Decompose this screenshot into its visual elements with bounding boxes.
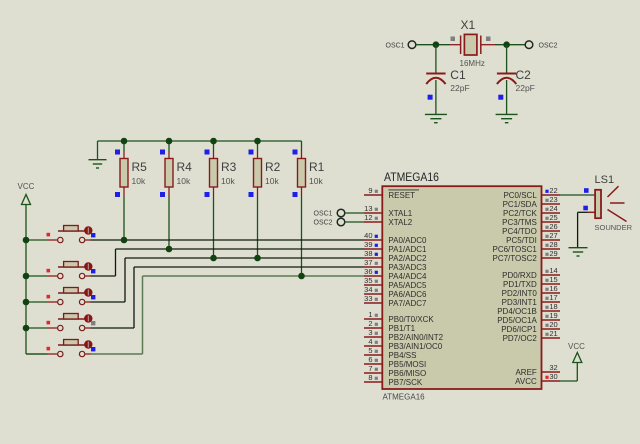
svg-text:PC0/SCL: PC0/SCL [503, 191, 537, 200]
svg-text:33: 33 [364, 294, 372, 303]
power VCC (left) [18, 182, 35, 205]
svg-text:R1: R1 [309, 160, 325, 174]
svg-text:22pF: 22pF [450, 83, 469, 93]
wire R5 bottom lead [123, 197, 125, 241]
svg-text:PD5/OC1A: PD5/OC1A [497, 316, 537, 325]
svg-text:22pF: 22pF [516, 83, 535, 93]
svg-text:LS1: LS1 [595, 174, 615, 186]
svg-text:PB0/T0/XCK: PB0/T0/XCK [388, 315, 434, 324]
ground (sounder) [569, 248, 588, 256]
push button 1 [47, 226, 96, 243]
pin 3 PB2/AIN0/INT2 [364, 328, 444, 342]
pin 2 PB1/T1 [364, 319, 416, 333]
svg-text:PD4/OC1B: PD4/OC1B [497, 307, 537, 316]
node VCC rail junction 1 [23, 237, 30, 244]
svg-text:PA3/ADC3: PA3/ADC3 [388, 263, 427, 272]
svg-text:8: 8 [368, 373, 372, 382]
wire sounder to ground [578, 212, 588, 247]
ground (resistor rail) [89, 160, 107, 168]
wire R3 bottom lead [213, 197, 215, 259]
svg-text:39: 39 [364, 240, 372, 249]
pin 22 PC0/SCL [503, 186, 560, 200]
svg-text:RESET: RESET [388, 191, 415, 200]
svg-text:PD3/INT1: PD3/INT1 [502, 298, 538, 307]
svg-text:PB6/MISO: PB6/MISO [388, 369, 426, 378]
svg-text:PC4/TDO: PC4/TDO [502, 227, 537, 236]
crystal X1 16MHz [450, 18, 495, 68]
resistor R5 10k [115, 141, 147, 197]
svg-text:17: 17 [549, 293, 557, 302]
svg-text:AVCC: AVCC [515, 377, 537, 386]
push button 5 [47, 340, 96, 357]
svg-text:35: 35 [364, 276, 372, 285]
svg-text:PA1/ADC1: PA1/ADC1 [388, 245, 427, 254]
pin 27 PC5/TDI [506, 231, 560, 245]
node VCC rail junction 4 [23, 325, 30, 332]
pin 25 PC3/TMS [502, 213, 560, 227]
svg-text:AREF: AREF [515, 368, 536, 377]
svg-text:OSC1: OSC1 [386, 43, 405, 50]
node crystal junction C1 [433, 41, 440, 48]
node OSC2 terminal (left) [314, 218, 345, 226]
svg-text:27: 27 [549, 231, 557, 240]
svg-text:ATMEGA16: ATMEGA16 [383, 393, 426, 402]
svg-text:PC1/SDA: PC1/SDA [503, 200, 538, 209]
node VCC rail junction 3 [23, 299, 30, 306]
svg-text:24: 24 [549, 204, 557, 213]
svg-text:XTAL2: XTAL2 [388, 218, 412, 227]
node R3 junction [210, 255, 217, 262]
svg-text:VCC: VCC [568, 342, 585, 351]
wire R1 bottom lead [301, 197, 303, 277]
svg-text:10k: 10k [221, 176, 235, 186]
svg-text:PC7/TOSC2: PC7/TOSC2 [492, 254, 537, 263]
svg-text:16MHz: 16MHz [460, 59, 485, 68]
pin 28 PC6/TOSC1 [492, 240, 560, 254]
pin 12 XTAL2 [364, 213, 413, 227]
svg-text:PB5/MOSI: PB5/MOSI [388, 360, 426, 369]
capacitor C1 22pF [426, 68, 469, 100]
svg-text:34: 34 [364, 285, 372, 294]
svg-text:C2: C2 [516, 68, 532, 82]
svg-text:12: 12 [364, 213, 372, 222]
wire VCC rail [26, 205, 48, 355]
svg-text:PD7/OC2: PD7/OC2 [503, 334, 538, 343]
wire OSC1 to crystal [416, 44, 450, 46]
svg-text:4: 4 [368, 337, 372, 346]
svg-text:5: 5 [368, 346, 372, 355]
pin 34 PA6/ADC6 [364, 285, 427, 299]
pin 24 PC2/TCK [503, 204, 560, 218]
wire VCC to button 5 [26, 353, 48, 355]
pin 33 PA7/ADC7 [364, 294, 427, 308]
svg-text:25: 25 [549, 213, 557, 222]
node R4 junction [166, 246, 173, 253]
IC U1 ATMEGA16 (MCU body) [382, 170, 541, 402]
wire VCC to button 2 [26, 275, 48, 277]
svg-text:PB2/AIN0/INT2: PB2/AIN0/INT2 [388, 333, 443, 342]
node rail junction R3 [210, 138, 217, 145]
power VCC (right) [568, 342, 585, 363]
svg-text:PC6/TOSC1: PC6/TOSC1 [492, 245, 537, 254]
svg-text:PA2/ADC2: PA2/ADC2 [388, 254, 427, 263]
wire C1 top lead [435, 45, 437, 73]
node R2 junction [254, 255, 261, 262]
svg-text:37: 37 [364, 258, 372, 267]
wire PC0 to sounder [560, 194, 595, 196]
pin 4 PB3/AIN1/OC0 [364, 337, 443, 351]
svg-text:PD6/ICP1: PD6/ICP1 [501, 325, 537, 334]
pin 30 AVCC [515, 372, 560, 386]
wire button 5 to PA4 [91, 276, 365, 354]
svg-text:10k: 10k [265, 176, 279, 186]
push button 2 [47, 262, 96, 279]
node OSC1 terminal (left) [314, 209, 345, 217]
wire R2 bottom lead [257, 197, 259, 259]
svg-text:PB4/SS: PB4/SS [388, 351, 416, 360]
pin 18 PD4/OC1B [497, 302, 560, 316]
svg-text:15: 15 [549, 275, 557, 284]
svg-text:3: 3 [368, 328, 372, 337]
svg-text:VCC: VCC [18, 182, 35, 191]
push button 4 [47, 314, 96, 331]
wire button 2 to PA1 [91, 249, 365, 276]
svg-text:PA6/ADC6: PA6/ADC6 [388, 290, 427, 299]
ground (C2) [496, 114, 518, 122]
wire C2 top lead [506, 45, 508, 73]
pin 32 AREF [515, 363, 560, 377]
resistor R3 10k [205, 141, 237, 197]
svg-text:C1: C1 [450, 68, 466, 82]
node R5 junction [121, 237, 128, 244]
svg-text:26: 26 [549, 222, 557, 231]
pin 23 PC1/SDA [503, 195, 560, 209]
pin 6 PB5/MOSI [364, 355, 426, 369]
resistor R4 10k [160, 141, 192, 197]
pin 36 PA4/ADC4 [364, 267, 427, 281]
svg-text:R2: R2 [265, 160, 281, 174]
svg-text:PC5/TDI: PC5/TDI [506, 236, 537, 245]
svg-text:13: 13 [364, 204, 372, 213]
pin 16 PD2/INT0 [502, 284, 560, 298]
wire R4 bottom lead [168, 197, 170, 250]
pin 1 PB0/T0/XCK [364, 310, 434, 324]
svg-text:16: 16 [549, 284, 557, 293]
svg-text:PB7/SCK: PB7/SCK [388, 378, 422, 387]
svg-text:PD0/RXD: PD0/RXD [502, 271, 537, 280]
resistor R1 10k [293, 141, 325, 197]
svg-text:6: 6 [368, 355, 372, 364]
svg-text:PD1/TXD: PD1/TXD [503, 280, 537, 289]
svg-text:20: 20 [549, 320, 557, 329]
svg-text:R3: R3 [221, 160, 237, 174]
resistor R2 10k [249, 141, 281, 197]
svg-text:18: 18 [549, 302, 557, 311]
svg-text:PB3/AIN1/OC0: PB3/AIN1/OC0 [388, 342, 442, 351]
pin 29 PC7/TOSC2 [492, 249, 560, 263]
wire VCC to button 4 [26, 327, 48, 329]
wire OSC2 to XTAL [345, 221, 364, 223]
svg-text:X1: X1 [461, 18, 476, 32]
svg-text:PA7/ADC7: PA7/ADC7 [388, 299, 427, 308]
pin 37 PA3/ADC3 [364, 258, 427, 272]
pin 13 XTAL1 [364, 204, 413, 218]
ground (C1) [425, 114, 447, 122]
wire C2 bottom lead [506, 80, 508, 114]
svg-text:22: 22 [549, 186, 557, 195]
pin 19 PD5/OC1A [497, 311, 560, 325]
svg-text:29: 29 [549, 249, 557, 258]
svg-text:10k: 10k [132, 176, 146, 186]
wire button 1 to PA0 [91, 239, 365, 241]
svg-text:PA0/ADC0: PA0/ADC0 [388, 236, 427, 245]
svg-text:PC3/TMS: PC3/TMS [502, 218, 537, 227]
svg-text:PA4/ADC4: PA4/ADC4 [388, 272, 427, 281]
pin 35 PA5/ADC5 [364, 276, 427, 290]
push button 3 [47, 288, 96, 305]
svg-text:32: 32 [549, 363, 557, 372]
wire VCC to button 1 [26, 239, 48, 241]
pin 20 PD6/ICP1 [501, 320, 560, 334]
wire C1 bottom lead [435, 80, 437, 114]
pin 40 PA0/ADC0 [364, 231, 427, 245]
node crystal junction C2 [503, 41, 510, 48]
capacitor C2 22pF [497, 68, 535, 100]
svg-text:21: 21 [549, 329, 557, 338]
wire crystal to OSC2 [495, 44, 525, 46]
svg-text:OSC1: OSC1 [314, 211, 333, 218]
node VCC rail junction 2 [23, 273, 30, 280]
svg-text:10k: 10k [309, 176, 323, 186]
svg-text:9: 9 [368, 186, 372, 195]
svg-text:OSC2: OSC2 [539, 43, 558, 50]
svg-text:PA5/ADC5: PA5/ADC5 [388, 281, 427, 290]
wire OSC1 to XTAL [345, 212, 364, 214]
pin 38 PA2/ADC2 [364, 249, 427, 263]
pin 17 PD3/INT1 [502, 293, 560, 307]
svg-text:PD2/INT0: PD2/INT0 [502, 289, 538, 298]
svg-text:28: 28 [549, 240, 557, 249]
pin 5 PB4/SS [364, 346, 416, 360]
svg-text:XTAL1: XTAL1 [388, 209, 412, 218]
svg-text:1: 1 [368, 310, 372, 319]
pin 14 PD0/RXD [502, 266, 560, 280]
svg-text:30: 30 [549, 372, 557, 381]
svg-text:14: 14 [549, 266, 557, 275]
pin 9 RESET [364, 186, 419, 200]
svg-text:2: 2 [368, 319, 372, 328]
speaker LS1 SOUNDER [583, 174, 632, 232]
node rail junction R4 [166, 138, 173, 145]
wire button 3 to PA2 [91, 258, 365, 302]
pin 26 PC4/TDO [502, 222, 560, 236]
svg-text:40: 40 [364, 231, 372, 240]
node OSC1 terminal (top) [386, 41, 416, 50]
pin 39 PA1/ADC1 [364, 240, 427, 254]
node R1 junction [298, 273, 305, 280]
pin 7 PB6/MISO [364, 364, 426, 378]
node OSC2 terminal (top) [525, 41, 557, 50]
pin 8 PB7/SCK [364, 373, 423, 387]
svg-text:R5: R5 [132, 160, 148, 174]
svg-text:R4: R4 [177, 160, 193, 174]
wire button 4 to PA3 [91, 267, 365, 328]
svg-text:23: 23 [549, 195, 557, 204]
svg-text:OSC2: OSC2 [314, 220, 333, 227]
svg-text:36: 36 [364, 267, 372, 276]
pin 15 PD1/TXD [503, 275, 560, 289]
svg-text:7: 7 [368, 364, 372, 373]
svg-text:19: 19 [549, 311, 557, 320]
node rail junction R2 [254, 138, 261, 145]
svg-text:PB1/T1: PB1/T1 [388, 324, 415, 333]
wire ground rail [98, 141, 302, 160]
svg-text:10k: 10k [177, 176, 191, 186]
svg-text:ATMEGA16: ATMEGA16 [384, 170, 439, 184]
wire VCC to button 3 [26, 301, 48, 303]
svg-text:38: 38 [364, 249, 372, 258]
svg-text:SOUNDER: SOUNDER [595, 223, 633, 232]
svg-text:PC2/TCK: PC2/TCK [503, 209, 537, 218]
node rail junction R5 [121, 138, 128, 145]
wire VCC to AVCC [560, 363, 577, 382]
pin 21 PD7/OC2 [503, 329, 560, 343]
